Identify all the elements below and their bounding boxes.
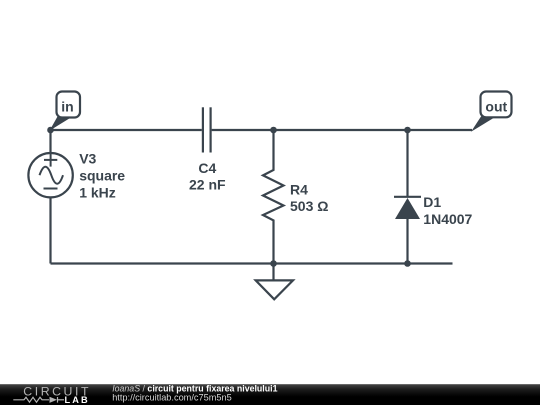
svg-text:1 kHz: 1 kHz: [79, 185, 116, 201]
svg-text:square: square: [79, 167, 125, 183]
svg-text:503 Ω: 503 Ω: [290, 198, 328, 214]
svg-text:V3: V3: [79, 150, 96, 166]
svg-text:22 nF: 22 nF: [189, 176, 226, 192]
svg-text:R4: R4: [290, 182, 308, 198]
svg-text:C4: C4: [198, 160, 216, 176]
svg-text:LAB: LAB: [65, 395, 90, 405]
svg-text:out: out: [485, 99, 507, 115]
svg-text:in: in: [61, 99, 73, 115]
svg-text:D1: D1: [423, 194, 441, 210]
svg-text:http://circuitlab.com/c75m5n5: http://circuitlab.com/c75m5n5: [112, 392, 232, 402]
svg-text:1N4007: 1N4007: [423, 211, 472, 227]
